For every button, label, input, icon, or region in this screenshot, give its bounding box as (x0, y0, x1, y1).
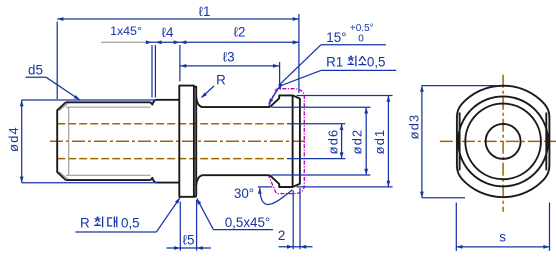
svg-text:ℓ4: ℓ4 (162, 25, 174, 40)
svg-text:ød6: ød6 (326, 129, 341, 155)
svg-text:ℓ2: ℓ2 (234, 25, 246, 40)
svg-text:ød1: ød1 (372, 129, 387, 155)
svg-text:0,5: 0,5 (121, 216, 140, 231)
svg-text:ℓ3: ℓ3 (223, 50, 235, 65)
svg-text:ød3: ød3 (407, 114, 422, 140)
svg-text:30°: 30° (234, 186, 254, 201)
svg-text:ℓ1: ℓ1 (199, 4, 211, 19)
svg-text:1x45°: 1x45° (110, 24, 142, 38)
svg-text:0,5: 0,5 (367, 55, 386, 70)
svg-text:d5: d5 (28, 63, 43, 78)
svg-text:15°: 15° (326, 30, 346, 45)
svg-text:R1: R1 (326, 55, 343, 70)
svg-text:ød4: ød4 (6, 126, 21, 152)
svg-text:R: R (80, 216, 90, 231)
svg-text:2: 2 (278, 228, 285, 243)
svg-text:R: R (216, 73, 226, 88)
svg-text:ød2: ød2 (350, 129, 365, 155)
svg-text:0: 0 (358, 33, 364, 44)
svg-text:+0.5°: +0.5° (350, 23, 374, 34)
svg-text:ℓ5: ℓ5 (183, 233, 195, 248)
svg-text:s: s (499, 229, 506, 244)
svg-text:0,5x45°: 0,5x45° (225, 215, 271, 230)
